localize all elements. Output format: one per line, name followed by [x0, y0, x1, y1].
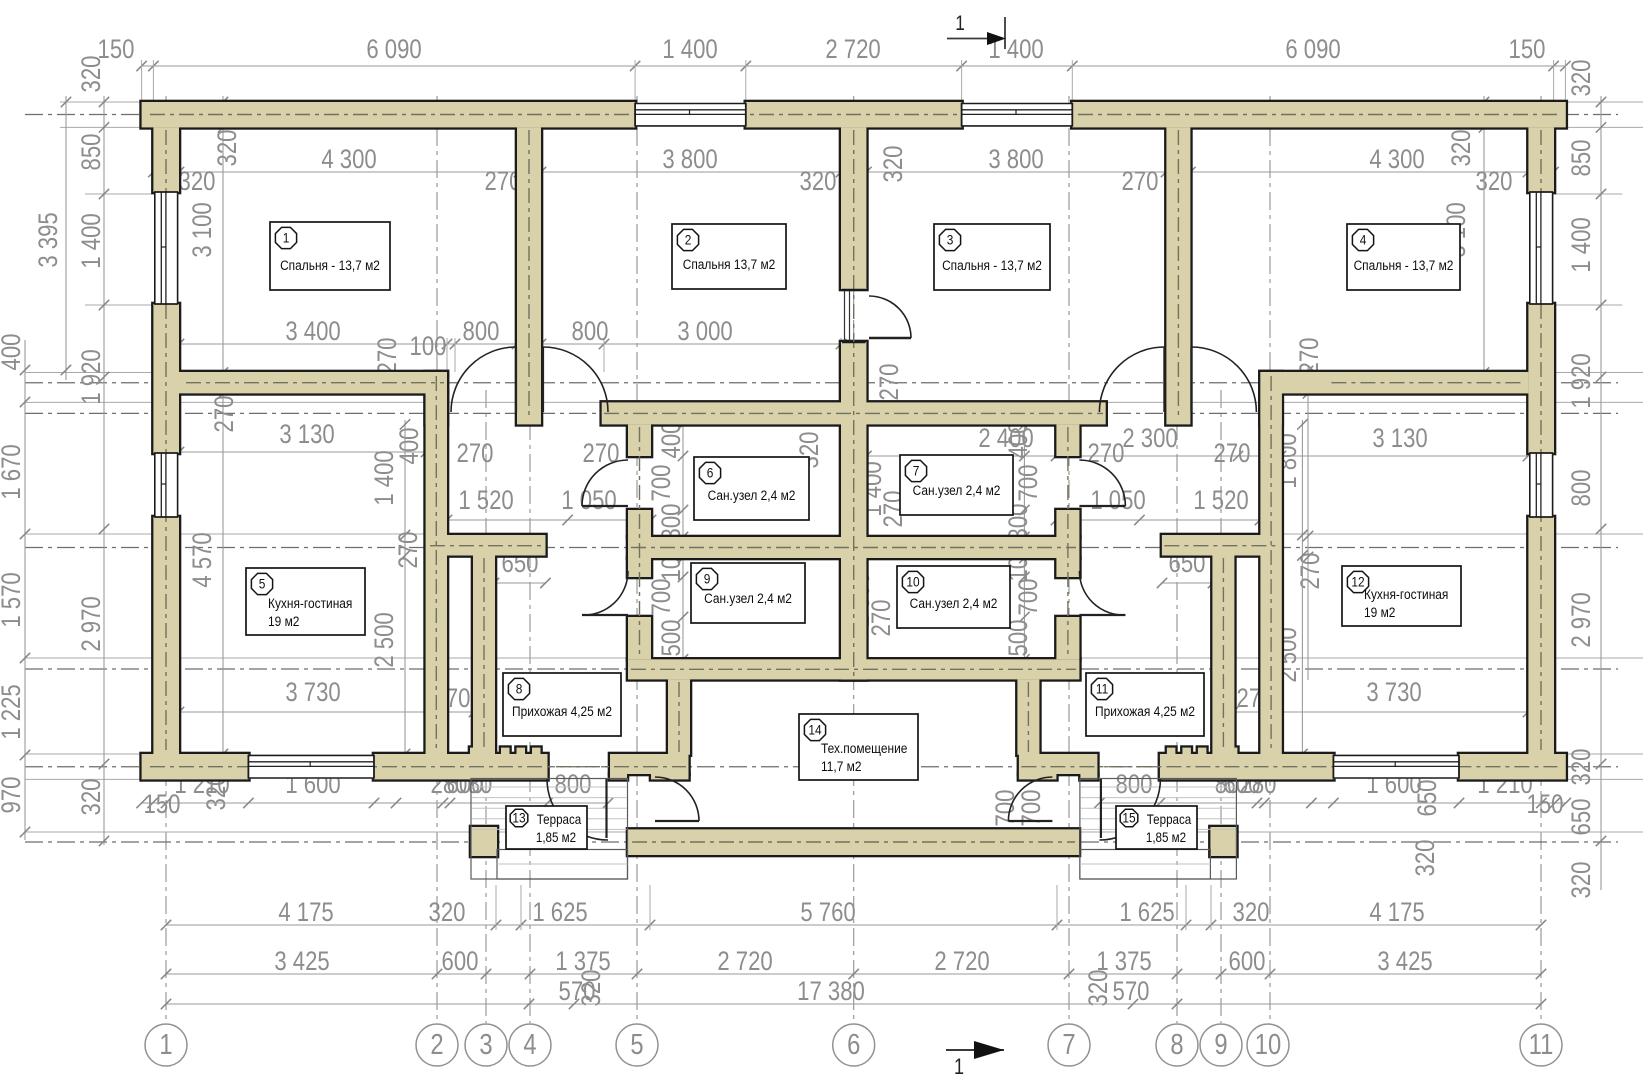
svg-text:320: 320 [800, 167, 837, 197]
svg-text:850: 850 [1567, 140, 1597, 177]
svg-text:3: 3 [479, 1028, 492, 1061]
svg-text:2 500: 2 500 [370, 612, 400, 667]
svg-text:7: 7 [913, 463, 920, 479]
svg-text:1 050: 1 050 [1090, 486, 1145, 516]
svg-text:2 720: 2 720 [825, 35, 880, 65]
svg-text:3 000: 3 000 [677, 317, 732, 347]
svg-text:270: 270 [1088, 439, 1125, 469]
svg-text:1 375: 1 375 [1096, 947, 1151, 977]
svg-text:270: 270 [875, 364, 905, 401]
svg-text:320: 320 [1411, 840, 1441, 877]
svg-text:700: 700 [1014, 465, 1044, 502]
svg-text:10: 10 [1255, 1028, 1281, 1061]
svg-text:1: 1 [159, 1028, 172, 1061]
svg-text:4 300: 4 300 [321, 145, 376, 175]
svg-text:17 380: 17 380 [797, 977, 865, 1007]
svg-text:1 625: 1 625 [532, 898, 587, 928]
svg-text:6 090: 6 090 [366, 35, 421, 65]
svg-text:5 760: 5 760 [800, 898, 855, 928]
svg-text:970: 970 [0, 777, 27, 814]
svg-text:2 300: 2 300 [1122, 424, 1177, 454]
svg-text:270: 270 [583, 439, 620, 469]
svg-text:1: 1 [283, 230, 290, 246]
svg-text:3 100: 3 100 [188, 202, 218, 257]
svg-text:1 400: 1 400 [370, 450, 400, 505]
svg-text:1 670: 1 670 [0, 444, 27, 499]
svg-text:1 400: 1 400 [1567, 217, 1597, 272]
svg-text:3 800: 3 800 [662, 145, 717, 175]
svg-text:270: 270 [1214, 439, 1251, 469]
svg-text:3 395: 3 395 [34, 212, 64, 267]
svg-text:700: 700 [1014, 579, 1044, 616]
svg-text:270: 270 [210, 396, 240, 433]
svg-text:320: 320 [213, 130, 243, 167]
svg-text:650: 650 [1567, 799, 1597, 836]
svg-text:3 730: 3 730 [285, 678, 340, 708]
svg-text:800: 800 [1116, 770, 1153, 800]
svg-text:320: 320 [77, 56, 107, 93]
svg-text:11: 11 [1096, 681, 1108, 697]
svg-text:5: 5 [259, 576, 266, 592]
svg-text:15: 15 [1122, 810, 1135, 826]
svg-text:1 520: 1 520 [1193, 486, 1248, 516]
svg-text:270: 270 [1122, 167, 1159, 197]
svg-text:850: 850 [77, 134, 107, 171]
svg-text:4: 4 [1360, 232, 1367, 248]
svg-text:700: 700 [647, 465, 677, 502]
svg-text:Сан.узел 2,4 м2: Сан.узел 2,4 м2 [708, 487, 796, 503]
svg-text:150: 150 [1509, 35, 1546, 65]
svg-text:320: 320 [179, 167, 216, 197]
svg-text:800: 800 [1567, 470, 1597, 507]
svg-text:3 800: 3 800 [988, 145, 1043, 175]
svg-text:400: 400 [1004, 422, 1034, 459]
svg-text:700: 700 [647, 579, 677, 616]
svg-text:4 175: 4 175 [278, 898, 333, 928]
svg-text:11,7 м2: 11,7 м2 [821, 758, 861, 774]
svg-text:4 300: 4 300 [1369, 145, 1424, 175]
svg-text:1,85 м2: 1,85 м2 [1146, 830, 1186, 845]
svg-text:7: 7 [1062, 1028, 1075, 1061]
svg-text:Тех.помещение: Тех.помещение [821, 740, 907, 756]
svg-text:3: 3 [947, 232, 954, 248]
svg-text:8: 8 [516, 681, 523, 697]
svg-text:Прихожая 4,25 м2: Прихожая 4,25 м2 [1095, 703, 1195, 719]
svg-text:100: 100 [410, 332, 447, 362]
svg-text:320: 320 [1567, 749, 1597, 786]
svg-text:1: 1 [954, 1055, 964, 1079]
svg-text:1 225: 1 225 [0, 684, 27, 739]
svg-text:570: 570 [1113, 977, 1150, 1007]
svg-text:320: 320 [1447, 130, 1477, 167]
svg-text:270: 270 [1295, 338, 1325, 375]
svg-text:270: 270 [457, 439, 494, 469]
svg-text:4 570: 4 570 [188, 532, 218, 587]
svg-text:2 970: 2 970 [77, 596, 107, 651]
svg-text:3 730: 3 730 [1366, 678, 1421, 708]
svg-text:270: 270 [373, 338, 403, 375]
svg-text:1: 1 [955, 13, 965, 36]
svg-text:1 920: 1 920 [1567, 353, 1597, 408]
svg-text:800: 800 [572, 317, 609, 347]
svg-text:320: 320 [879, 146, 909, 183]
svg-text:3 425: 3 425 [274, 947, 329, 977]
svg-text:2: 2 [685, 232, 692, 248]
svg-text:5: 5 [630, 1028, 643, 1061]
svg-text:1 375: 1 375 [555, 947, 610, 977]
svg-text:19 м2: 19 м2 [268, 613, 299, 629]
svg-text:9: 9 [704, 571, 711, 587]
svg-text:Терраса: Терраса [537, 812, 581, 827]
svg-text:600: 600 [442, 947, 479, 977]
svg-text:1 400: 1 400 [77, 213, 107, 268]
svg-text:Сан.узел 2,4 м2: Сан.узел 2,4 м2 [913, 482, 1001, 498]
svg-text:320: 320 [1567, 60, 1597, 97]
svg-text:320: 320 [429, 898, 466, 928]
svg-text:400: 400 [657, 422, 687, 459]
svg-text:Спальня 13,7 м2: Спальня 13,7 м2 [683, 256, 776, 272]
svg-text:19 м2: 19 м2 [1364, 604, 1395, 620]
svg-text:6: 6 [847, 1028, 860, 1061]
svg-text:150: 150 [1527, 790, 1564, 820]
svg-text:1 920: 1 920 [77, 349, 107, 404]
svg-text:9: 9 [1214, 1028, 1227, 1061]
svg-text:Спальня - 13,7 м2: Спальня - 13,7 м2 [942, 257, 1042, 273]
svg-text:320: 320 [1476, 167, 1513, 197]
svg-text:2 720: 2 720 [934, 947, 989, 977]
svg-text:6 090: 6 090 [1285, 35, 1340, 65]
svg-text:1 050: 1 050 [561, 486, 616, 516]
svg-text:650: 650 [1413, 780, 1443, 817]
svg-text:270: 270 [867, 600, 897, 637]
svg-text:14: 14 [808, 722, 821, 738]
svg-text:1 625: 1 625 [1119, 898, 1174, 928]
svg-text:1 400: 1 400 [662, 35, 717, 65]
svg-text:3 400: 3 400 [285, 317, 340, 347]
svg-text:320: 320 [1233, 898, 1270, 928]
svg-text:800: 800 [463, 317, 500, 347]
svg-text:270: 270 [394, 532, 424, 569]
svg-text:12: 12 [1351, 574, 1364, 590]
svg-text:2 720: 2 720 [717, 947, 772, 977]
svg-text:Сан.узел 2,4 м2: Сан.узел 2,4 м2 [704, 590, 792, 606]
svg-text:600: 600 [1229, 947, 1266, 977]
svg-text:8: 8 [1170, 1028, 1183, 1061]
svg-text:1,85 м2: 1,85 м2 [536, 830, 576, 845]
svg-text:2: 2 [430, 1028, 443, 1061]
svg-text:Спальня - 13,7 м2: Спальня - 13,7 м2 [1354, 257, 1454, 273]
svg-text:4: 4 [523, 1028, 536, 1061]
svg-text:2 970: 2 970 [1567, 592, 1597, 647]
svg-text:13: 13 [512, 810, 525, 826]
svg-text:10: 10 [906, 574, 919, 590]
svg-text:Прихожая 4,25 м2: Прихожая 4,25 м2 [512, 703, 612, 719]
svg-text:6: 6 [707, 465, 714, 481]
svg-text:3 130: 3 130 [279, 420, 334, 450]
svg-text:Терраса: Терраса [1147, 812, 1191, 827]
svg-text:150: 150 [144, 790, 181, 820]
svg-text:400: 400 [0, 334, 27, 371]
svg-text:11: 11 [1529, 1028, 1554, 1061]
svg-text:Спальня - 13,7 м2: Спальня - 13,7 м2 [280, 257, 380, 273]
svg-text:Кухня-гостиная: Кухня-гостиная [268, 595, 352, 611]
svg-text:3 130: 3 130 [1372, 424, 1427, 454]
svg-text:1 520: 1 520 [458, 486, 513, 516]
svg-text:3 425: 3 425 [1377, 947, 1432, 977]
svg-text:320: 320 [1567, 862, 1597, 899]
svg-text:500: 500 [657, 620, 687, 657]
svg-text:Кухня-гостиная: Кухня-гостиная [1364, 586, 1448, 602]
svg-text:570: 570 [559, 977, 596, 1007]
svg-text:800: 800 [555, 770, 592, 800]
svg-text:1 570: 1 570 [0, 572, 27, 627]
svg-text:Сан.узел 2,4 м2: Сан.узел 2,4 м2 [910, 595, 998, 611]
svg-text:4 175: 4 175 [1369, 898, 1424, 928]
svg-text:320: 320 [77, 779, 107, 816]
